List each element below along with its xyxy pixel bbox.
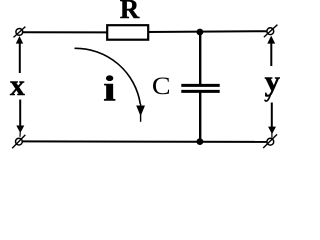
current arrowhead (down) — [136, 106, 145, 117]
terminal top-right — [264, 25, 278, 37]
current arc i — [75, 48, 141, 104]
svg-text:x: x — [10, 69, 25, 102]
wire top (left segment, terminal to resistor) — [23, 31, 108, 33]
wire capacitor branch upper — [199, 32, 201, 86]
voltage arrow x upper (arrowhead up toward terminal) — [16, 36, 23, 73]
wire top (right segment, resistor to right terminal) — [147, 30, 267, 33]
terminal bottom-right — [263, 134, 277, 148]
wire bottom — [22, 140, 266, 143]
junction node top — [197, 29, 204, 36]
svg-text:C: C — [152, 71, 171, 100]
svg-text:y: y — [265, 66, 281, 97]
wire capacitor branch lower — [199, 92, 201, 143]
voltage arrow y lower (arrowhead down toward terminal) — [268, 103, 276, 138]
voltage arrow x lower (arrowhead down toward terminal) — [16, 100, 24, 137]
current arrowhead tail — [140, 104, 142, 122]
voltage arrow y upper (arrowhead up toward terminal) — [267, 36, 275, 66]
terminal top-left — [14, 27, 26, 38]
junction node bottom — [197, 138, 204, 145]
terminal bottom-left — [12, 135, 25, 148]
svg-text:R: R — [120, 0, 140, 24]
voltage label y — [265, 66, 281, 101]
capacitor C1 plates — [181, 85, 219, 91]
resistor R1 body — [107, 25, 148, 40]
svg-text:i: i — [103, 69, 116, 109]
